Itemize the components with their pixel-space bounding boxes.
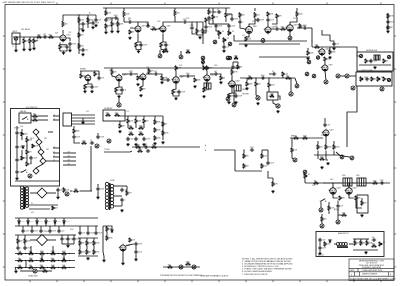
svg-text:.1: .1	[138, 139, 139, 141]
svg-text:30uF: 30uF	[98, 233, 102, 235]
resistor R93	[373, 182, 378, 184]
resistor R112	[29, 266, 34, 268]
svg-text:470K: 470K	[165, 133, 170, 135]
pot shaft A	[201, 56, 205, 60]
junction	[290, 77, 291, 78]
svg-text:V1A: V1A	[55, 32, 58, 35]
resistor R85	[294, 137, 299, 139]
capacitor C51	[336, 204, 339, 208]
wire	[208, 8, 210, 10]
jack J11	[387, 78, 390, 81]
junction PSU row	[25, 267, 26, 268]
wire	[154, 116, 156, 120]
ground C4	[81, 53, 84, 56]
wire	[97, 191, 99, 196]
svg-text:1uF: 1uF	[336, 44, 339, 46]
wire	[73, 241, 75, 244]
ground power amp	[360, 214, 363, 217]
resistor R39	[161, 76, 163, 81]
wire harness	[72, 117, 96, 119]
svg-text:250P: 250P	[218, 26, 223, 28]
svg-text:.1: .1	[20, 248, 21, 250]
capacitor C45	[144, 145, 148, 148]
wire PSU top bus	[15, 217, 98, 219]
resistor R58	[127, 119, 129, 124]
capacitor C24	[386, 20, 389, 24]
wire	[333, 141, 335, 145]
wire	[26, 142, 28, 149]
resistor R135	[372, 245, 377, 247]
junction PSU row	[25, 260, 26, 261]
svg-text:1M: 1M	[89, 252, 92, 254]
wire heater lead 3	[114, 205, 122, 207]
ground	[136, 83, 139, 86]
reverb input jack	[359, 54, 362, 57]
wire	[33, 37, 35, 39]
resistor R99	[17, 239, 19, 244]
wire FX send bus	[240, 77, 295, 79]
wire	[123, 8, 125, 11]
jack pilot	[336, 220, 340, 224]
svg-text:SCHEMATIC, AMPLIFIER: SCHEMATIC, AMPLIFIER	[362, 266, 382, 269]
svg-text:1M: 1M	[223, 78, 226, 80]
wire	[58, 226, 60, 229]
svg-text:120P: 120P	[129, 71, 134, 73]
wire	[340, 75, 345, 77]
wire	[61, 241, 63, 244]
output level box	[356, 72, 392, 86]
svg-text:470P: 470P	[138, 244, 143, 246]
svg-text:.01: .01	[217, 9, 219, 11]
wire mid run	[239, 43, 300, 45]
capacitor C17B	[231, 65, 234, 69]
wire	[366, 182, 372, 184]
resistor R110	[62, 259, 67, 261]
resistor R41 cathode	[172, 90, 174, 95]
svg-text:330K: 330K	[332, 52, 337, 54]
svg-text:1M: 1M	[165, 124, 168, 126]
resistor R18 cathode	[160, 43, 162, 48]
wire	[208, 20, 210, 24]
wire PSU bus 2	[15, 225, 98, 227]
wire footswitch lead	[53, 156, 60, 158]
capacitor C57	[16, 246, 19, 250]
wire	[161, 34, 163, 43]
wire	[321, 222, 323, 224]
svg-text:1.5K: 1.5K	[264, 156, 268, 158]
svg-text:SCALE NONE DWN JRS CKD APP SHE: SCALE NONE DWN JRS CKD APP SHEET 1 OF 1	[350, 278, 396, 281]
resistor R13 plate	[123, 11, 125, 17]
resistor R52	[286, 77, 291, 79]
resistor R111	[18, 266, 23, 268]
wire xfmr secondary 3	[29, 208, 50, 210]
resistor R7 dropper	[78, 17, 80, 23]
wire	[63, 223, 65, 226]
LED D4	[40, 158, 46, 164]
resistor R108	[40, 259, 45, 261]
ground	[110, 30, 113, 33]
title block outline	[349, 259, 394, 281]
resistor R101	[18, 252, 23, 254]
junction PSU row	[58, 260, 59, 261]
svg-text:.0047: .0047	[90, 233, 94, 235]
ground	[139, 94, 142, 97]
svg-text:CH2: CH2	[46, 149, 49, 151]
wire	[80, 71, 82, 74]
svg-text:120P: 120P	[234, 19, 239, 21]
wire	[41, 234, 43, 237]
resistor R44 cathode	[203, 88, 205, 93]
wire panel lead	[63, 156, 76, 158]
svg-text:440V: 440V	[330, 179, 333, 181]
tube V1A	[59, 34, 66, 42]
resistor R21D	[203, 66, 205, 70]
wire	[333, 151, 335, 156]
svg-text:100K: 100K	[62, 251, 67, 253]
junction	[323, 182, 324, 183]
wire	[73, 235, 75, 237]
svg-text:.01: .01	[124, 90, 126, 92]
resistor R50B	[270, 95, 274, 97]
resistor R162	[225, 13, 227, 18]
wire	[267, 22, 269, 27]
wire	[17, 244, 19, 246]
resistor R120	[86, 250, 88, 255]
wire	[138, 41, 141, 44]
wire	[21, 150, 23, 156]
svg-text:250P: 250P	[380, 180, 385, 182]
svg-text:12AX7: 12AX7	[236, 79, 240, 82]
resistor R67	[154, 136, 156, 141]
resistor R160	[205, 18, 207, 23]
wire tone vertical	[202, 33, 204, 44]
ground	[306, 57, 309, 60]
svg-text:2.2K: 2.2K	[132, 240, 136, 242]
output transformer T2	[357, 178, 366, 186]
wire	[338, 155, 350, 157]
resistor R35 cathode	[115, 88, 117, 93]
wire to V3 grid	[157, 28, 161, 30]
wire	[338, 214, 342, 216]
svg-text:→ B: → B	[203, 150, 206, 152]
svg-text:47K: 47K	[129, 193, 133, 195]
diode D20	[22, 146, 24, 148]
indicator lamp DS1	[158, 54, 162, 58]
ground at J1	[14, 49, 17, 52]
wire	[225, 8, 227, 13]
svg-text:470K: 470K	[234, 55, 239, 57]
wire	[328, 202, 330, 206]
resistor R43 plate	[206, 66, 208, 71]
ground V3 cathode	[162, 50, 165, 53]
svg-text:10K: 10K	[177, 13, 181, 15]
svg-text:5V: 5V	[31, 203, 33, 205]
wire	[20, 270, 33, 272]
wire	[135, 116, 137, 119]
junction PSU row	[36, 267, 37, 268]
wire	[337, 215, 339, 220]
svg-text:LD: LD	[53, 114, 55, 116]
wire	[233, 91, 235, 103]
svg-text:.022: .022	[43, 34, 46, 36]
resistor R70	[33, 115, 38, 117]
svg-text:100K: 100K	[126, 14, 131, 16]
connector P1 box	[63, 113, 72, 126]
wire	[158, 74, 162, 76]
svg-text:47K: 47K	[275, 184, 279, 186]
svg-text:COMBO AMPLIFIER 100W: COMBO AMPLIFIER 100W	[362, 269, 383, 272]
wire plate	[123, 17, 125, 22]
wire	[149, 73, 154, 75]
reverb unit enclosure box	[357, 52, 393, 71]
wire	[349, 243, 353, 245]
wire	[133, 73, 138, 75]
diode D11	[27, 221, 29, 223]
resistor R116	[79, 241, 81, 246]
ground	[104, 31, 107, 34]
wire	[23, 37, 25, 39]
junction PSU row	[69, 267, 70, 268]
wire	[216, 23, 229, 25]
svg-text:22uF: 22uF	[138, 252, 142, 254]
wire	[93, 238, 95, 241]
capacitor C33B	[272, 72, 276, 75]
svg-text:250P: 250P	[303, 25, 308, 27]
wire	[192, 30, 197, 34]
ground tone	[198, 36, 201, 39]
wire	[88, 22, 91, 24]
tube V13 bias	[119, 244, 126, 252]
resistor R28	[315, 46, 320, 48]
ground	[234, 101, 237, 104]
resistor R124B	[52, 206, 54, 210]
wire	[88, 83, 92, 86]
wire	[79, 226, 81, 231]
resistor R6 cathode	[59, 45, 61, 50]
wire	[146, 73, 149, 76]
wire	[231, 75, 233, 81]
ground	[193, 85, 196, 88]
capacitor C5B	[94, 18, 97, 22]
wire	[79, 238, 81, 241]
capacitor C41	[15, 170, 18, 174]
svg-text:BIAS SUPPLY: BIAS SUPPLY	[338, 232, 350, 235]
svg-text:47K: 47K	[205, 31, 209, 33]
capacitor C1	[43, 35, 47, 38]
jack harness	[95, 144, 99, 148]
svg-text:→ CH: → CH	[66, 164, 70, 166]
ground PI	[326, 162, 329, 165]
resistor R150	[80, 74, 82, 79]
svg-text:1M: 1M	[152, 144, 155, 146]
capacitor C60	[66, 237, 69, 241]
LED D2	[36, 139, 42, 145]
wire	[31, 226, 33, 229]
wire	[49, 226, 51, 229]
LED D5	[33, 168, 39, 174]
svg-text:1N4007: 1N4007	[29, 220, 34, 222]
svg-text:2.2K: 2.2K	[215, 17, 219, 19]
resistor R84	[272, 182, 274, 187]
optocoupler LDR1	[204, 83, 211, 89]
wire	[361, 198, 363, 201]
wire down to psu	[90, 146, 92, 180]
wire	[36, 218, 38, 221]
jack J8C	[312, 74, 316, 78]
junction	[348, 182, 349, 183]
svg-text:220K: 220K	[157, 130, 162, 132]
ground	[245, 87, 248, 90]
wire	[143, 116, 145, 119]
wire	[15, 268, 16, 271]
wire	[117, 27, 119, 31]
wire	[135, 254, 137, 258]
capacitor C49	[323, 123, 326, 127]
wire	[218, 36, 220, 40]
junction PSU row	[69, 253, 70, 254]
wire harness	[72, 123, 96, 125]
ground bias box	[364, 251, 367, 254]
resistor R37 plate	[148, 69, 150, 74]
wire	[268, 171, 273, 178]
footswitch enclosure box	[11, 109, 60, 187]
wire lamp	[159, 50, 161, 54]
wire	[291, 138, 293, 147]
wire	[317, 141, 319, 145]
svg-text:470K: 470K	[96, 252, 101, 254]
wire	[41, 155, 43, 158]
wire chassis run down	[347, 86, 357, 147]
svg-text:47uF: 47uF	[20, 126, 23, 128]
wire	[78, 237, 98, 239]
resistor R22	[239, 13, 241, 18]
wire	[143, 123, 145, 128]
wire PSU bus 3	[15, 234, 60, 236]
wire PSU interlink	[25, 261, 27, 268]
wire	[273, 100, 276, 105]
jack PI out upper	[340, 155, 344, 159]
wire heater lead 1	[114, 185, 122, 187]
tube V2A	[134, 25, 141, 33]
wire	[135, 246, 137, 250]
capacitor C22	[332, 42, 335, 46]
wire	[290, 78, 292, 92]
wire	[135, 123, 137, 128]
svg-text:330K: 330K	[186, 261, 191, 263]
wire long signal run	[234, 40, 307, 42]
wire	[282, 76, 284, 78]
wire	[30, 239, 37, 241]
ground V4 cathode	[244, 44, 247, 47]
wire	[218, 74, 221, 76]
capacitor C34	[365, 77, 368, 81]
ground	[128, 37, 131, 40]
resistor R5 plate load	[62, 21, 64, 27]
resistor R57	[115, 114, 120, 116]
wire	[197, 22, 203, 29]
jack J12	[351, 86, 355, 90]
wire	[325, 136, 327, 144]
relay K2 box	[19, 113, 31, 123]
resistor R92	[314, 182, 319, 184]
wire	[272, 18, 277, 24]
wire	[107, 226, 112, 230]
wire	[233, 35, 235, 41]
junction	[255, 77, 256, 78]
svg-text:150K: 150K	[303, 135, 308, 137]
svg-text:470P: 470P	[72, 44, 77, 46]
wire	[79, 246, 81, 250]
resistor R65	[154, 120, 156, 125]
svg-text:225V: 225V	[321, 135, 324, 137]
wire	[307, 48, 309, 51]
resistor R123	[63, 188, 65, 193]
diode D16	[111, 230, 113, 232]
svg-text:.01: .01	[90, 140, 92, 142]
input jack J1	[14, 37, 18, 41]
ground send jack	[256, 102, 259, 105]
jack J13	[380, 87, 384, 91]
junction PSU row	[47, 253, 48, 254]
diode D13	[45, 221, 47, 223]
ground	[56, 196, 59, 199]
border tick marks left	[3, 36, 5, 267]
heater transformer T4	[105, 182, 113, 210]
wire	[352, 182, 356, 184]
wire	[48, 131, 53, 133]
svg-text:.047: .047	[275, 26, 278, 28]
wire	[27, 223, 29, 226]
resistor R103	[40, 252, 45, 254]
svg-text:1.5K: 1.5K	[62, 47, 66, 49]
svg-text:→ CH: → CH	[66, 156, 70, 158]
svg-text:470K: 470K	[138, 148, 143, 150]
wire	[278, 96, 280, 100]
wire	[37, 270, 52, 272]
wire	[255, 78, 257, 82]
svg-text:275V: 275V	[186, 18, 189, 20]
resistor R72	[26, 138, 28, 143]
tube V4A	[244, 25, 252, 34]
capacitor C36	[134, 137, 137, 141]
wire	[16, 162, 18, 170]
resistor R47 cathode	[228, 94, 230, 99]
wire	[126, 244, 134, 246]
ground	[134, 258, 137, 261]
wire	[319, 250, 321, 252]
wire	[111, 18, 113, 22]
jack mixer	[107, 139, 111, 143]
wire	[349, 75, 356, 77]
resistor R77C	[32, 144, 34, 148]
wire	[161, 47, 166, 49]
capacitor C23	[369, 59, 372, 63]
svg-text:1uF: 1uF	[82, 233, 85, 235]
ground	[68, 49, 71, 52]
jack J3	[288, 36, 292, 40]
capacitor C2B	[68, 42, 71, 46]
wire PSU interlink	[52, 246, 54, 254]
svg-text:10K: 10K	[358, 198, 362, 200]
resistor R94	[339, 196, 341, 201]
svg-text:CHAN SEL: CHAN SEL	[20, 110, 27, 113]
ground heater	[120, 209, 123, 212]
svg-text:30uF: 30uF	[390, 22, 394, 24]
resistor R118	[93, 241, 95, 246]
resistor R73	[26, 150, 28, 155]
resistor R23 plate	[254, 12, 256, 18]
resistor R119	[79, 250, 81, 255]
